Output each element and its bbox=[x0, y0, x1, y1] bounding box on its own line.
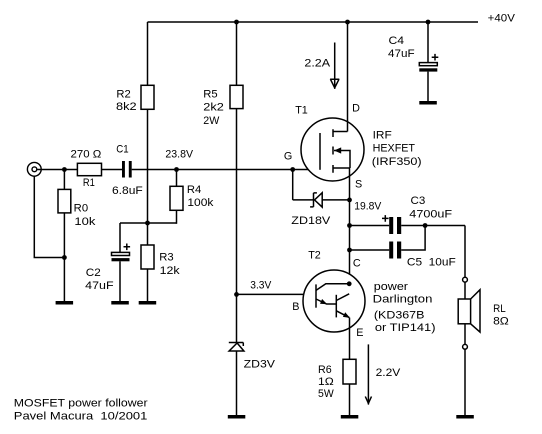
transistor T1 MOSFET bbox=[284, 103, 364, 191]
svg-text:C: C bbox=[353, 258, 361, 270]
wire zener row right bbox=[322, 199, 349, 201]
wire R5 to bias node bbox=[236, 109, 238, 342]
caption bbox=[14, 397, 148, 422]
svg-text:R4: R4 bbox=[187, 184, 201, 196]
svg-text:+40V: +40V bbox=[488, 13, 516, 25]
svg-text:12k: 12k bbox=[160, 265, 181, 277]
wire C2 to ground bbox=[119, 261, 121, 301]
wire C4 to ground bbox=[427, 72, 429, 102]
svg-text:C2: C2 bbox=[86, 267, 101, 279]
T1 channel bars bbox=[332, 129, 334, 173]
label IRF HEXFET (IRF350) bbox=[372, 130, 422, 168]
svg-text:(IRF350): (IRF350) bbox=[372, 156, 422, 168]
svg-text:power: power bbox=[374, 281, 409, 293]
svg-text:C5 10uF: C5 10uF bbox=[407, 257, 456, 269]
wire output to RL bbox=[464, 226, 466, 278]
wire C2 stub bbox=[119, 223, 121, 253]
wire source down to T2 bbox=[349, 168, 351, 295]
svg-text:23.8V: 23.8V bbox=[165, 148, 193, 160]
T1 source stub bbox=[333, 167, 350, 169]
T2 Q1 base bar bbox=[315, 284, 317, 307]
svg-text:ZD18V: ZD18V bbox=[291, 215, 331, 227]
node source 19.8V bbox=[347, 198, 352, 203]
resistor R3 bbox=[141, 245, 180, 277]
svg-text:100k: 100k bbox=[187, 197, 214, 209]
terminal RL top bbox=[463, 277, 468, 282]
wire terminal to speaker bbox=[464, 282, 466, 299]
node gate bbox=[290, 167, 295, 172]
svg-text:E: E bbox=[356, 327, 363, 339]
T1 gate bar bbox=[319, 133, 321, 170]
svg-text:5W: 5W bbox=[318, 388, 334, 400]
svg-text:R5: R5 bbox=[203, 89, 217, 101]
resistor R1 bbox=[71, 148, 102, 189]
svg-text:T1: T1 bbox=[295, 105, 308, 117]
node C3 tap bbox=[347, 223, 352, 228]
svg-text:(KD367B: (KD367B bbox=[374, 310, 425, 322]
resistor R0 bbox=[58, 189, 96, 228]
ground R6 bbox=[341, 415, 359, 419]
svg-text:6.8uF: 6.8uF bbox=[112, 185, 143, 197]
label power Darlington bbox=[373, 281, 436, 334]
ground R3 bbox=[139, 301, 157, 305]
svg-text:Pavel Macura 10/2001: Pavel Macura 10/2001 bbox=[14, 411, 148, 423]
node R0/shield bbox=[62, 255, 67, 260]
svg-text:R2: R2 bbox=[116, 88, 130, 100]
node C5 tap bbox=[347, 248, 352, 253]
wire R6 to ground bbox=[349, 384, 351, 416]
wire bias to base bbox=[237, 293, 317, 295]
node R4/signal bbox=[174, 167, 179, 172]
capacitor C4 bbox=[388, 35, 438, 72]
svg-text:Darlington: Darlington bbox=[373, 294, 433, 306]
wire R3 to ground bbox=[147, 269, 149, 302]
wire rail to R2 bbox=[147, 22, 149, 85]
wire gate down bbox=[292, 170, 294, 200]
capacitor C2 bbox=[85, 244, 130, 292]
svg-text:19.8V: 19.8V bbox=[354, 200, 382, 212]
wire C5 right up bbox=[401, 226, 425, 251]
svg-text:47uF: 47uF bbox=[388, 48, 415, 60]
wire C3 right bbox=[401, 225, 465, 227]
svg-text:G: G bbox=[284, 150, 292, 162]
wire R1 to C1 bbox=[102, 169, 123, 171]
transistor T2 Darlington bbox=[292, 250, 365, 339]
wire R0 top bbox=[63, 170, 65, 190]
svg-text:2k2: 2k2 bbox=[203, 101, 224, 113]
T2 Q1 emitter bbox=[316, 299, 336, 304]
resistor R2 bbox=[116, 85, 154, 113]
svg-text:270 Ω: 270 Ω bbox=[71, 148, 102, 160]
capacitor C5 bbox=[389, 242, 456, 269]
svg-text:R1: R1 bbox=[83, 177, 95, 189]
node C3/C5 bbox=[423, 223, 428, 228]
wire T1 drain to rail bbox=[347, 22, 349, 132]
node A (R2/R3/C2/R4) bbox=[145, 221, 150, 226]
resistor R4 bbox=[170, 184, 214, 210]
node bias 3.3V bbox=[234, 292, 239, 297]
node rail/R5 bbox=[234, 20, 239, 25]
svg-text:C1: C1 bbox=[116, 144, 128, 156]
svg-text:3.3V: 3.3V bbox=[250, 279, 272, 291]
wire input shield bbox=[34, 176, 64, 257]
svg-text:MOSFET power follower: MOSFET power follower bbox=[14, 397, 148, 409]
svg-text:2W: 2W bbox=[203, 115, 220, 127]
wire C1 to gate node bbox=[132, 169, 320, 171]
node T2 collector / Q1 bbox=[347, 281, 352, 286]
T2 Q2 collector bbox=[336, 294, 349, 301]
svg-text:8k2: 8k2 bbox=[116, 101, 137, 113]
wire to C3 bbox=[350, 225, 390, 227]
svg-text:IRF: IRF bbox=[373, 130, 393, 142]
ground C4 bbox=[419, 101, 437, 105]
svg-text:2.2V: 2.2V bbox=[376, 367, 402, 379]
wire zener row left bbox=[293, 199, 314, 201]
node input/R0 bbox=[62, 167, 67, 172]
wire R0 to ground bbox=[63, 213, 65, 302]
T1 body stub and arrow bbox=[334, 151, 350, 169]
svg-text:2.2A: 2.2A bbox=[304, 57, 331, 69]
node rail/T1 drain bbox=[345, 20, 350, 25]
wire T2 emitter to R6 bbox=[349, 318, 351, 360]
T1 drain stub bbox=[333, 131, 348, 133]
wire rail to R5 bbox=[236, 22, 238, 85]
svg-text:B: B bbox=[292, 301, 299, 313]
terminal RL bottom bbox=[463, 344, 468, 349]
arrow 2.2A bbox=[330, 43, 339, 89]
wire R4 bottom bbox=[176, 210, 178, 224]
zener ZD3V bbox=[229, 343, 276, 371]
svg-text:1Ω: 1Ω bbox=[318, 376, 334, 388]
svg-text:C3: C3 bbox=[411, 195, 426, 207]
wire terminal to ground bbox=[464, 349, 466, 415]
svg-text:8Ω: 8Ω bbox=[493, 315, 509, 327]
wire C4 stub bbox=[427, 22, 429, 63]
capacitor C3 bbox=[382, 195, 453, 234]
wire to C5 bbox=[350, 249, 390, 251]
wire node A horizontal bbox=[120, 222, 177, 224]
svg-text:RL: RL bbox=[493, 303, 506, 315]
resistor R5 bbox=[203, 85, 243, 127]
wire R4 top bbox=[176, 170, 178, 187]
svg-text:47uF: 47uF bbox=[85, 280, 114, 292]
svg-text:D: D bbox=[352, 103, 360, 115]
wire R2 to node A bbox=[147, 109, 149, 245]
svg-text:ZD3V: ZD3V bbox=[244, 359, 276, 371]
node rail/C4 bbox=[426, 20, 431, 25]
ground RL bbox=[456, 415, 474, 419]
ground R0 bbox=[56, 301, 74, 305]
svg-text:10k: 10k bbox=[74, 216, 96, 228]
wire speaker to terminal bbox=[464, 324, 466, 345]
svg-text:T2: T2 bbox=[308, 250, 321, 262]
svg-text:C4: C4 bbox=[389, 35, 405, 47]
T2 Q1 collector bbox=[316, 284, 349, 291]
svg-text:or TIP141): or TIP141) bbox=[375, 322, 436, 334]
svg-text:S: S bbox=[355, 178, 362, 190]
ground ZD3V bbox=[228, 415, 246, 419]
speaker RL bbox=[458, 290, 509, 332]
T2 Q2 emitter bbox=[336, 311, 349, 318]
wire input to R1 bbox=[37, 169, 78, 171]
wire top +40V rail bbox=[148, 21, 479, 23]
zener ZD18V bbox=[291, 193, 331, 227]
arrow 2.2V bbox=[365, 344, 371, 404]
svg-text:R0: R0 bbox=[74, 203, 88, 215]
svg-text:HEXFET: HEXFET bbox=[373, 143, 416, 155]
capacitor C1 bbox=[112, 144, 143, 197]
ground C2 bbox=[111, 301, 129, 305]
input connector J1 bbox=[27, 162, 41, 176]
svg-text:4700uF: 4700uF bbox=[409, 208, 452, 220]
svg-text:R6: R6 bbox=[318, 364, 332, 376]
T2 Q2 base bar bbox=[335, 295, 337, 318]
resistor R6 bbox=[318, 359, 356, 400]
svg-text:R3: R3 bbox=[159, 252, 173, 264]
wire ZD3V to ground bbox=[236, 351, 238, 416]
